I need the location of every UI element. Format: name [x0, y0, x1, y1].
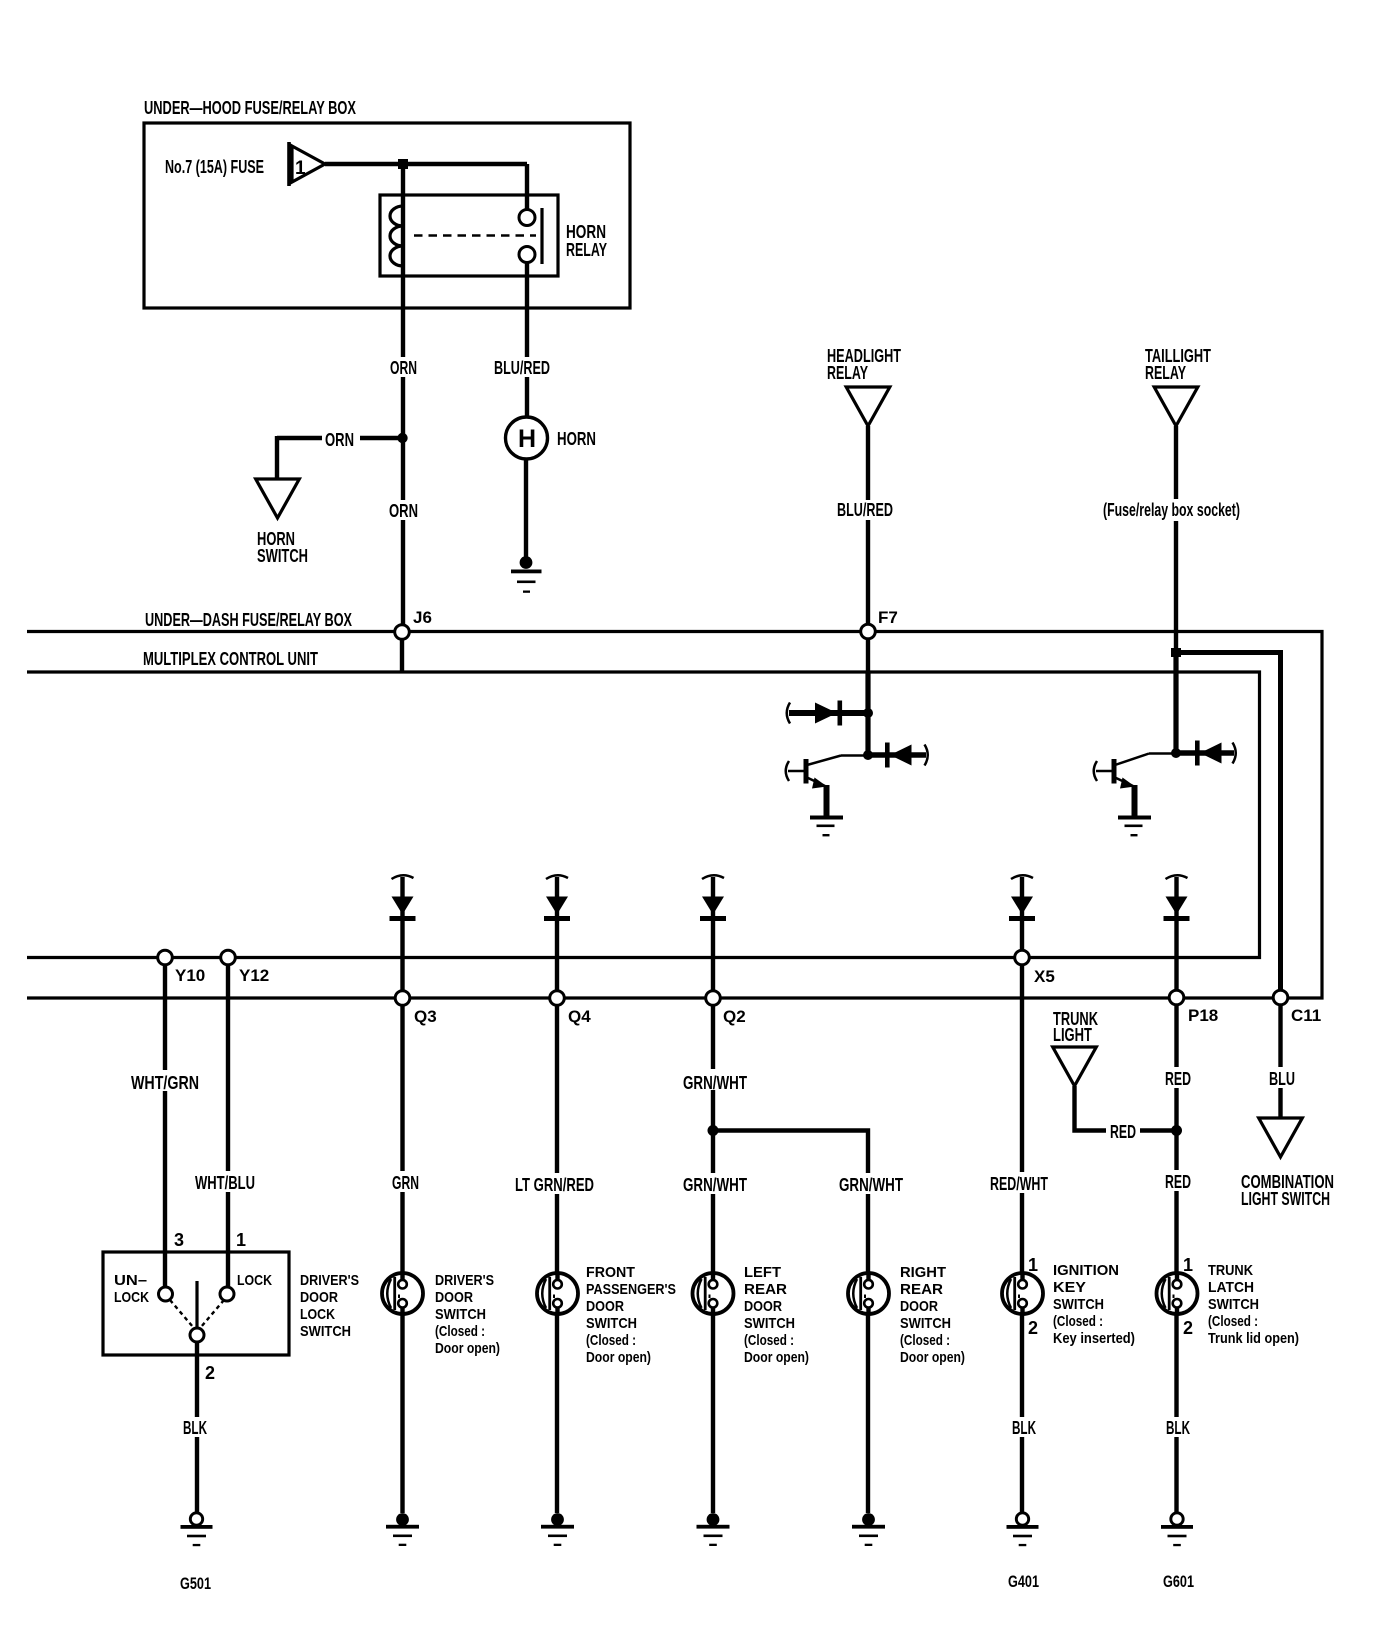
label BLK trunk latch [1162, 1417, 1198, 1438]
wire ORN J6 to multiplex [400, 639, 404, 672]
svg-text:BLK: BLK [1012, 1418, 1036, 1438]
svg-text:ORN: ORN [389, 501, 418, 521]
connector Q3 [395, 991, 436, 1026]
label LT GRN/RED [511, 1173, 598, 1195]
node junction at fuse output [398, 159, 408, 169]
wire Y12 to lock switch pin 1 [226, 964, 230, 1288]
svg-text:PASSENGER'S: PASSENGER'S [586, 1281, 676, 1298]
svg-text:FRONT: FRONT [586, 1264, 635, 1281]
svg-text:Door open): Door open) [586, 1349, 651, 1366]
node junction headlight diode [863, 708, 873, 718]
ground left rear door switch [697, 1513, 730, 1546]
label RED lower [1161, 1170, 1195, 1192]
svg-text:GRN/WHT: GRN/WHT [683, 1175, 747, 1195]
svg-text:LOCK: LOCK [237, 1272, 272, 1289]
svg-text:Trunk lid open): Trunk lid open) [1208, 1330, 1299, 1347]
front passenger's door switch label [586, 1264, 676, 1366]
wire BLU/RED from relay contact down [525, 164, 529, 418]
wire Q2 to left rear door switch [711, 1005, 715, 1273]
ground headlight transistor emitter [810, 816, 843, 837]
ground front passenger's door switch [541, 1513, 574, 1546]
ground G501 [180, 1513, 213, 1593]
svg-text:(Closed :: (Closed : [900, 1332, 950, 1349]
connector Y12 [221, 950, 270, 985]
front passenger's door switch SW2 [537, 1273, 578, 1314]
label LOCK [237, 1272, 272, 1289]
svg-text:DOOR: DOOR [900, 1298, 938, 1315]
svg-text:ORN: ORN [390, 358, 417, 378]
driver's door lock switch box [103, 1252, 289, 1355]
svg-text:LIGHT SWITCH: LIGHT SWITCH [1241, 1189, 1330, 1209]
ignition key switch label [1053, 1262, 1135, 1347]
svg-text:SWITCH: SWITCH [586, 1315, 637, 1332]
label WHT/GRN [127, 1070, 203, 1093]
taillight relay connector triangle [1154, 387, 1198, 426]
horn relay label [566, 222, 607, 260]
fuse No.7 (15A) label [165, 157, 264, 177]
ignition key switch pin 2 label [1028, 1318, 1038, 1338]
svg-text:RIGHT: RIGHT [900, 1264, 946, 1281]
horn label [557, 429, 596, 449]
node junction taillight collector [1171, 748, 1181, 758]
combination light switch label [1241, 1172, 1334, 1209]
svg-text:HORN: HORN [566, 222, 606, 242]
wire diode drop Q3 [400, 877, 404, 991]
pin 1 label [236, 1230, 246, 1250]
svg-text:1: 1 [236, 1230, 246, 1250]
taillight relay label [1145, 346, 1211, 383]
label GRN/WHT middle [679, 1173, 751, 1195]
label BLU [1265, 1067, 1299, 1089]
svg-text:UNDER—DASH FUSE/RELAY BOX: UNDER—DASH FUSE/RELAY BOX [145, 610, 352, 630]
svg-text:UNDER—HOOD FUSE/RELAY BOX: UNDER—HOOD FUSE/RELAY BOX [144, 98, 356, 118]
svg-text:GRN/WHT: GRN/WHT [839, 1175, 903, 1195]
transistor Q1 headlight driver [786, 756, 868, 818]
svg-text:RELAY: RELAY [566, 240, 607, 260]
wire ORN vertical from junction down to J6 [401, 164, 405, 626]
svg-text:(Closed :: (Closed : [1208, 1313, 1258, 1330]
label UN-LOCK [114, 1272, 149, 1306]
svg-text:DOOR: DOOR [435, 1289, 473, 1306]
label RED horizontal [1106, 1120, 1140, 1142]
trunk latch switch pin 1 label [1183, 1255, 1193, 1275]
right rear door switch label [900, 1264, 965, 1366]
wire trunk light branch [1075, 1086, 1177, 1131]
svg-text:IGNITION: IGNITION [1053, 1262, 1119, 1279]
svg-text:Key inserted): Key inserted) [1053, 1330, 1135, 1347]
svg-text:LOCK: LOCK [300, 1306, 335, 1323]
svg-text:No.7 (15A) FUSE: No.7 (15A) FUSE [165, 157, 264, 177]
svg-text:DRIVER'S: DRIVER'S [435, 1272, 494, 1289]
wire Q3 to driver's door switch [400, 1005, 404, 1273]
trunk latch switch label [1208, 1262, 1299, 1347]
pin 2 label [205, 1363, 215, 1383]
ignition key switch pin 1 label [1028, 1255, 1038, 1275]
wire X5 to ignition key switch [1020, 964, 1024, 1273]
svg-text:1: 1 [1183, 1255, 1193, 1275]
svg-text:BLK: BLK [1166, 1418, 1190, 1438]
trunk light label [1053, 1009, 1098, 1045]
lock switch wiper arm [195, 1281, 198, 1328]
wire fuse to relay top [325, 162, 527, 166]
horn relay contact blade [540, 208, 543, 264]
wire taillight relay down into box [1174, 426, 1178, 753]
lock switch pin 3 contact [159, 1287, 173, 1301]
driver's door switch SW1 [382, 1273, 423, 1314]
wire F7 down to transistor Q1 collector node [866, 639, 870, 755]
wire Q4 to front passenger's door switch [555, 1005, 559, 1273]
svg-text:RELAY: RELAY [827, 363, 868, 383]
under-hood fuse/relay box [144, 123, 630, 308]
svg-text:BLU: BLU [1269, 1069, 1295, 1089]
svg-text:J6: J6 [413, 608, 432, 627]
svg-text:(Closed :: (Closed : [1053, 1313, 1103, 1330]
svg-text:KEY: KEY [1053, 1279, 1086, 1296]
svg-text:(Closed :: (Closed : [744, 1332, 794, 1349]
horn relay contact pins [519, 210, 535, 263]
under-hood fuse/relay box title [144, 98, 356, 118]
diode D8 above P18 [1164, 875, 1190, 921]
svg-text:DOOR: DOOR [586, 1298, 624, 1315]
svg-text:REAR: REAR [900, 1281, 943, 1298]
wire diode drop Q2 [711, 877, 715, 991]
label RED upper [1161, 1067, 1195, 1089]
wire trunk latch switch to G601 [1174, 1315, 1178, 1513]
wire BLU/RED headlight relay to F7 [866, 426, 870, 625]
svg-text:UN–: UN– [114, 1272, 147, 1289]
svg-text:G501: G501 [180, 1574, 211, 1593]
horn relay dashed actuator line [414, 234, 536, 237]
connector Q2 [706, 991, 746, 1026]
svg-text:LIGHT: LIGHT [1053, 1025, 1092, 1045]
pin 3 label [174, 1230, 184, 1250]
svg-text:(Closed :: (Closed : [586, 1332, 636, 1349]
svg-text:3: 3 [174, 1230, 184, 1250]
horn switch connector triangle [256, 479, 300, 518]
trunk latch switch pin 2 label [1183, 1318, 1193, 1338]
connector C11 [1273, 990, 1321, 1025]
svg-text:RED/WHT: RED/WHT [990, 1174, 1048, 1194]
node junction GRN/WHT branch [708, 1125, 719, 1136]
svg-text:G601: G601 [1163, 1572, 1194, 1591]
label GRN [388, 1171, 423, 1193]
svg-text:F7: F7 [878, 608, 898, 627]
horn switch label [257, 529, 308, 566]
lock switch common contact [190, 1328, 204, 1342]
svg-text:2: 2 [1028, 1318, 1038, 1338]
svg-text:HORN: HORN [557, 429, 596, 449]
horn relay box [380, 195, 558, 276]
svg-text:Q3: Q3 [414, 1007, 437, 1026]
ground right rear door switch [852, 1513, 885, 1546]
ground G601 [1161, 1513, 1194, 1591]
label BLU/RED headlight [834, 500, 896, 520]
wire horn switch branch [277, 436, 402, 479]
connector Y10 [158, 950, 206, 985]
wire right rear door switch to ground [866, 1315, 870, 1514]
svg-text:Door open): Door open) [744, 1349, 809, 1366]
connector F7 [861, 608, 898, 639]
svg-text:Q4: Q4 [568, 1007, 591, 1026]
wire P18 to trunk latch switch [1174, 1005, 1178, 1273]
svg-text:TRUNK: TRUNK [1208, 1262, 1253, 1279]
svg-text:LATCH: LATCH [1208, 1279, 1254, 1296]
label WHT/BLU [191, 1171, 259, 1193]
driver's door lock switch label [300, 1272, 359, 1340]
svg-text:Y12: Y12 [239, 966, 269, 985]
diode D7 above X5 [1009, 875, 1035, 921]
svg-text:2: 2 [1183, 1318, 1193, 1338]
lock switch pin 1 contact [220, 1287, 234, 1301]
svg-text:C11: C11 [1291, 1006, 1321, 1025]
svg-text:WHT/GRN: WHT/GRN [131, 1073, 199, 1093]
diode D5 above Q4 [544, 875, 570, 921]
label fuse/relay box socket [1099, 499, 1244, 521]
connector P18 [1169, 990, 1218, 1025]
multiplex control unit title [143, 649, 318, 669]
wire ignition key switch to G401 [1020, 1315, 1024, 1513]
wire diode drop P18 [1174, 877, 1178, 991]
horn relay coil [390, 206, 403, 266]
label BLU/RED horn [491, 357, 553, 378]
fuse F1 symbol [289, 142, 325, 186]
svg-text:Door open): Door open) [435, 1340, 500, 1357]
trunk light connector triangle [1053, 1047, 1097, 1086]
wire Y10 to lock switch pin 3 [163, 964, 167, 1288]
under-dash fuse/relay box outline [27, 632, 1322, 999]
svg-text:DRIVER'S: DRIVER'S [300, 1272, 359, 1289]
left rear door switch SW3 [693, 1273, 734, 1314]
svg-text:LEFT: LEFT [744, 1264, 781, 1281]
label RED/WHT [986, 1172, 1052, 1194]
label ORN upper [387, 357, 421, 378]
svg-text:DOOR: DOOR [300, 1289, 338, 1306]
svg-text:RED: RED [1110, 1122, 1136, 1142]
svg-text:G401: G401 [1008, 1572, 1039, 1591]
svg-text:WHT/BLU: WHT/BLU [195, 1173, 255, 1193]
label GRN/WHT right [835, 1173, 907, 1195]
diode D2 headlight (right, pointing left) [868, 743, 928, 768]
ground driver's door switch [386, 1513, 419, 1546]
combination light switch connector triangle [1259, 1118, 1303, 1157]
driver's door switch label [435, 1272, 500, 1357]
svg-text:BLK: BLK [183, 1418, 207, 1438]
wire C11 to combination light switch [1278, 1005, 1282, 1118]
diode D3 taillight (pointing left) [1176, 741, 1236, 766]
diode D4 above Q3 [390, 875, 416, 921]
svg-text:DOOR: DOOR [744, 1298, 782, 1315]
label BLK lock switch [179, 1417, 215, 1438]
svg-text:SWITCH: SWITCH [1053, 1296, 1104, 1313]
ground below horn [511, 556, 542, 593]
svg-text:MULTIPLEX CONTROL UNIT: MULTIPLEX CONTROL UNIT [143, 649, 318, 669]
under-dash fuse/relay box title [145, 610, 352, 630]
connector X5 [1015, 950, 1055, 986]
svg-text:P18: P18 [1188, 1006, 1218, 1025]
svg-text:X5: X5 [1034, 967, 1055, 986]
right rear door switch SW4 [848, 1273, 889, 1314]
wire thick branch to C11 [1176, 653, 1281, 992]
node junction headlight collector [863, 750, 873, 760]
svg-text:SWITCH: SWITCH [257, 546, 308, 566]
svg-text:BLU/RED: BLU/RED [494, 358, 550, 378]
multiplex control unit outline [27, 672, 1260, 958]
horn H1 [506, 417, 548, 459]
svg-text:(Fuse/relay box socket): (Fuse/relay box socket) [1103, 500, 1240, 520]
svg-text:SWITCH: SWITCH [435, 1306, 486, 1323]
svg-text:RED: RED [1165, 1172, 1191, 1192]
node junction ORN branch [397, 433, 407, 443]
svg-text:LT GRN/RED: LT GRN/RED [515, 1175, 594, 1195]
svg-text:1: 1 [1028, 1255, 1038, 1275]
svg-text:Q2: Q2 [723, 1007, 746, 1026]
label ORN branch [322, 428, 360, 450]
svg-text:LOCK: LOCK [114, 1289, 149, 1306]
svg-text:H: H [518, 425, 536, 453]
svg-text:GRN: GRN [392, 1173, 419, 1193]
diode D1 into headlight drive (left, pointing right) [787, 701, 868, 726]
wire lock switch to G501 [195, 1342, 199, 1512]
ground taillight transistor emitter [1118, 816, 1151, 837]
trunk latch switch SW6 [1157, 1273, 1198, 1314]
svg-text:RELAY: RELAY [1145, 363, 1186, 383]
node junction trunk light RED [1171, 1125, 1182, 1136]
connector Q4 [550, 991, 592, 1026]
wire diode drop X5 [1020, 877, 1024, 951]
svg-text:SWITCH: SWITCH [300, 1323, 351, 1340]
connector J6 [395, 608, 432, 639]
svg-text:Door open): Door open) [900, 1349, 965, 1366]
label BLK ignition [1008, 1417, 1044, 1438]
node taillight thick branch junction [1171, 648, 1181, 657]
wire driver's door switch to ground [400, 1315, 404, 1514]
wire front passenger's door switch to ground [555, 1315, 559, 1514]
wire left rear door switch to ground [711, 1315, 715, 1514]
svg-text:SWITCH: SWITCH [900, 1315, 951, 1332]
diode D6 above Q2 [700, 875, 726, 921]
wire horn to ground [524, 459, 528, 557]
svg-text:RED: RED [1165, 1069, 1191, 1089]
wire branch to right rear door switch [713, 1131, 868, 1274]
svg-text:ORN: ORN [325, 430, 354, 450]
svg-text:SWITCH: SWITCH [744, 1315, 795, 1332]
svg-text:BLU/RED: BLU/RED [837, 500, 893, 520]
lock switch dashed throws [170, 1300, 224, 1327]
svg-text:1: 1 [295, 158, 306, 179]
label GRN/WHT upper [679, 1069, 751, 1093]
svg-text:SWITCH: SWITCH [1208, 1296, 1259, 1313]
transistor Q2 taillight driver [1094, 754, 1176, 818]
svg-text:2: 2 [205, 1363, 215, 1383]
left rear door switch label [744, 1264, 809, 1366]
svg-text:REAR: REAR [744, 1281, 787, 1298]
svg-text:Y10: Y10 [175, 966, 205, 985]
wire diode drop Q4 [555, 877, 559, 991]
svg-text:(Closed :: (Closed : [435, 1323, 485, 1340]
label ORN lower [385, 500, 421, 521]
svg-text:GRN/WHT: GRN/WHT [683, 1073, 747, 1093]
ground G401 [1007, 1513, 1040, 1591]
ignition key switch SW5 [1002, 1273, 1043, 1314]
headlight relay label [827, 346, 901, 383]
headlight relay connector triangle [846, 387, 890, 426]
